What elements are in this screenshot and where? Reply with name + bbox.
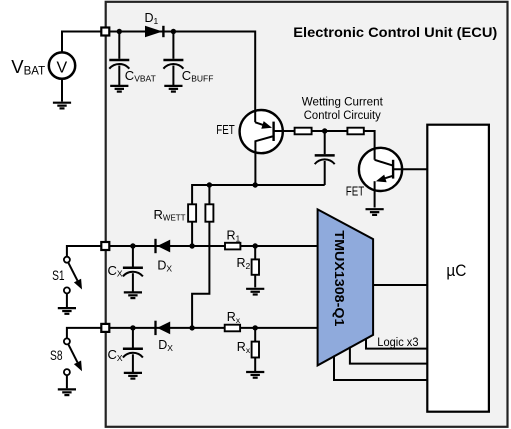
capacitor CX1 xyxy=(123,246,143,292)
ECU enclosure box xyxy=(106,2,508,427)
resistor RWETT b xyxy=(205,204,213,221)
label R1 xyxy=(227,228,241,243)
svg-text:S1: S1 xyxy=(52,268,65,283)
label RX shunt xyxy=(237,340,251,355)
wire S8 to connector xyxy=(67,328,102,338)
label Wetting Current xyxy=(302,94,384,108)
capacitor CX2 xyxy=(123,328,143,373)
wire RWETT b jog to S8 row xyxy=(192,222,209,328)
microcontroller uC xyxy=(427,125,489,412)
label DX2 xyxy=(158,338,173,353)
label RWETT xyxy=(154,207,186,223)
wire logic line 1 xyxy=(366,338,427,349)
svg-text:V: V xyxy=(56,60,67,77)
svg-text:TMUX1308-Q1: TMUX1308-Q1 xyxy=(332,230,347,326)
label CVBAT xyxy=(125,68,156,84)
resistor RX shunt xyxy=(252,328,259,371)
label DX1 xyxy=(157,259,172,274)
wire top rail to FET collector xyxy=(109,32,255,123)
node rail RWETT2 junction xyxy=(207,182,212,187)
svg-text:Wetting Current: Wetting Current xyxy=(302,94,384,108)
svg-text:FET: FET xyxy=(216,122,235,137)
node DX1 cathode junction xyxy=(189,243,194,248)
ground (CBUFF) xyxy=(164,86,182,92)
label Control Circuity xyxy=(304,108,382,122)
switch S1 xyxy=(64,257,82,307)
node C_BUFF junction xyxy=(171,29,176,34)
multiplexer U1 TMUX1308-Q1 xyxy=(318,209,374,365)
label S1 xyxy=(52,268,65,283)
ground (CVBAT) xyxy=(110,86,128,92)
node CX2 junction xyxy=(130,325,135,330)
connector pad (S8) xyxy=(101,324,109,332)
ground (CX1) xyxy=(124,292,142,298)
wire between wetting resistors xyxy=(312,130,348,132)
node R2 junction xyxy=(253,243,258,248)
label Logic x3 xyxy=(377,337,418,349)
transistor Q1 (FET high side) xyxy=(240,110,283,185)
resistor RX series xyxy=(225,325,240,332)
diode D1 xyxy=(145,26,163,38)
resistor R1 xyxy=(225,243,240,250)
wire logic line 2 xyxy=(350,347,427,364)
ground (CX2) xyxy=(124,373,142,379)
ground (S8) xyxy=(58,389,76,395)
ground (R2) xyxy=(246,289,264,295)
node rail Q1 emitter junction xyxy=(253,182,258,187)
wire RWETT a to S1 row xyxy=(191,222,193,246)
svg-text:S8: S8 xyxy=(50,348,63,363)
label S8 xyxy=(50,348,63,363)
wire VBAT source to ground xyxy=(61,79,63,102)
diode DX2 xyxy=(156,321,171,335)
svg-text:Electronic Control Unit (ECU): Electronic Control Unit (ECU) xyxy=(293,24,497,40)
capacitor (wetting) xyxy=(315,131,335,185)
label CX1 xyxy=(108,263,123,279)
svg-text:µC: µC xyxy=(446,261,466,280)
ground (S1) xyxy=(58,308,76,314)
wire S1 row xyxy=(109,245,318,247)
label CX2 xyxy=(108,347,123,363)
label R2 xyxy=(237,256,251,271)
wire MUX output to uC xyxy=(373,284,427,286)
wire S8 row xyxy=(109,327,318,329)
node RX junction xyxy=(253,325,258,330)
capacitor CBUFF xyxy=(163,32,183,86)
node C_VBAT junction xyxy=(117,29,122,34)
node CX1 junction xyxy=(130,243,135,248)
label RX series xyxy=(227,310,241,325)
ground (VBAT source) xyxy=(53,103,71,109)
svg-text:VBAT: VBAT xyxy=(11,56,45,77)
wire Q2 base to uC xyxy=(393,168,427,170)
ground (Q2 emitter) xyxy=(366,209,384,215)
wire wetting rail xyxy=(192,185,325,204)
capacitor CVBAT xyxy=(109,32,129,86)
node wetting cap junction xyxy=(322,128,327,133)
diode DX1 xyxy=(156,239,171,253)
label D1 xyxy=(145,11,159,26)
resistor RWETT a xyxy=(188,204,196,221)
switch S8 xyxy=(64,338,82,388)
wire VBAT source to connector xyxy=(62,32,101,53)
label FET (Q2) xyxy=(346,183,365,198)
wire Q1 base to RWETT resistor xyxy=(274,130,295,132)
connector pad (VBAT) xyxy=(101,28,109,36)
label FET (Q1) xyxy=(216,122,235,137)
wire logic line 3 xyxy=(334,356,427,380)
svg-text:Control Circuity: Control Circuity xyxy=(304,108,382,122)
voltage source V1 xyxy=(49,52,75,78)
connector pad (S1) xyxy=(101,242,109,250)
label VBAT xyxy=(11,56,45,77)
resistor (wetting series 2) xyxy=(347,128,363,135)
svg-text:Logic x3: Logic x3 xyxy=(377,337,418,349)
resistor (wetting series 1) xyxy=(295,128,312,135)
transistor Q2 (FET wetting) xyxy=(359,131,402,208)
node DX2 cathode junction xyxy=(189,325,194,330)
resistor R2 xyxy=(252,246,259,287)
label CBUFF xyxy=(182,68,214,84)
svg-text:FET: FET xyxy=(346,183,365,198)
ground (RX shunt) xyxy=(246,372,264,378)
wire RWETT2 top lead xyxy=(208,185,210,204)
wire S1 to connector xyxy=(67,246,102,256)
